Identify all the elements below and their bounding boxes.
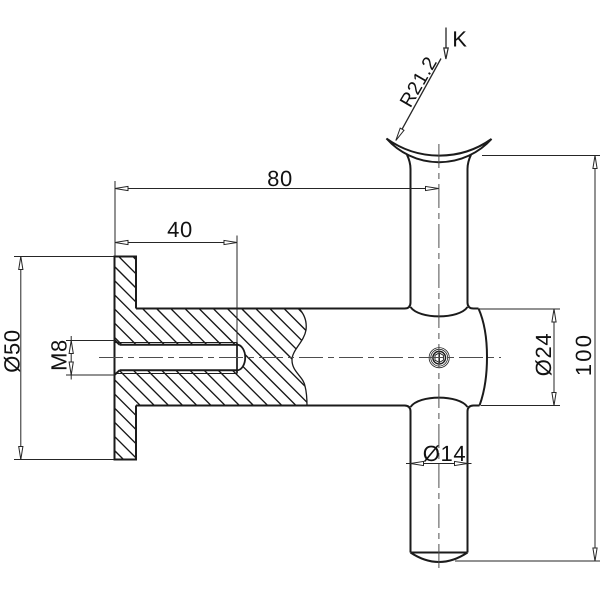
dim D24 extension bottom bbox=[481, 405, 560, 407]
horizontal centerline bbox=[99, 357, 501, 359]
dim 100 arrow top bbox=[593, 156, 597, 169]
dim D50 line bbox=[20, 257, 22, 460]
K arrow head bbox=[444, 48, 448, 59]
dim 100 arrow bottom bbox=[593, 548, 597, 561]
svg-text:40: 40 bbox=[167, 217, 193, 242]
M8 chamfer top bbox=[115, 340, 120, 345]
dim 40 extension right bbox=[236, 236, 238, 344]
dim D50 extension top bbox=[14, 256, 114, 258]
dim D50 extension bottom bbox=[14, 459, 114, 461]
svg-text:Ø24: Ø24 bbox=[531, 333, 556, 376]
set screw slot line bbox=[438, 353, 440, 363]
svg-text:100: 100 bbox=[571, 333, 596, 376]
M8 thread major line bottom bbox=[115, 373, 238, 375]
vertical centerline bbox=[438, 144, 440, 571]
upper tube right edge bbox=[468, 155, 472, 303]
set screw hex socket bbox=[435, 353, 443, 363]
lower post left edge bbox=[410, 412, 412, 553]
dim D24 arrow bottom bbox=[552, 393, 556, 406]
dim 40 arrow left bbox=[115, 240, 128, 244]
svg-text:M8: M8 bbox=[47, 339, 72, 371]
dim D24 line bbox=[553, 309, 555, 406]
K arrow line bbox=[445, 28, 447, 50]
dim D24 extension top bbox=[479, 308, 561, 310]
dim 100 extension top bbox=[482, 155, 600, 157]
break line bbox=[292, 309, 307, 406]
M8 hole bottom line bbox=[120, 369, 238, 371]
intersection curve bottom bbox=[411, 398, 468, 407]
M8 thread major line top bbox=[115, 342, 238, 344]
dim M8 extension top bbox=[66, 340, 115, 342]
lower post right edge bbox=[467, 412, 469, 553]
M8 chamfer bottom bbox=[115, 370, 120, 375]
lower post end line bbox=[411, 552, 468, 554]
dim 100 extension bottom bbox=[455, 560, 600, 562]
body bottom edge bbox=[136, 406, 411, 412]
dim M8 arrow top bbox=[69, 341, 73, 354]
body right top corner bbox=[468, 303, 479, 309]
dim 80 extension left bbox=[114, 181, 116, 256]
body right bottom corner bbox=[468, 406, 480, 412]
dim D14 arrow left bbox=[411, 461, 424, 465]
body top edge bbox=[136, 303, 411, 309]
dim D24 arrow top bbox=[552, 309, 556, 322]
thread end line bbox=[236, 343, 238, 374]
svg-text:Ø14: Ø14 bbox=[423, 441, 466, 466]
lower post dome bbox=[411, 553, 468, 563]
saddle crescent bbox=[387, 139, 492, 163]
svg-text:K: K bbox=[452, 27, 467, 52]
dim 80 arrow right bbox=[426, 186, 439, 190]
body right end cap arc bbox=[479, 309, 488, 406]
dim 80 arrow left bbox=[115, 186, 128, 190]
set screw minor circle bbox=[433, 351, 446, 364]
dim 40 arrow right bbox=[224, 240, 237, 244]
set screw thread circle bbox=[431, 349, 448, 366]
intersection curve top bbox=[411, 307, 468, 316]
R21.2 arrow head bbox=[396, 128, 404, 141]
dim 80 line bbox=[115, 188, 439, 190]
set screw outer circle bbox=[429, 348, 449, 368]
dim 40 line bbox=[115, 242, 237, 244]
dim M8 line bbox=[70, 336, 72, 380]
M8 hole top line bbox=[120, 344, 238, 346]
dim 100 line bbox=[594, 156, 596, 562]
upper tube left edge bbox=[407, 155, 411, 303]
dim D14 line bbox=[406, 463, 472, 465]
dim M8 extension bottom bbox=[66, 374, 115, 376]
R21.2 leader line bbox=[398, 59, 442, 138]
drill cone bbox=[237, 345, 245, 371]
section hatching flange and body bbox=[0, 250, 540, 480]
svg-text:Ø50: Ø50 bbox=[0, 329, 25, 372]
dim D50 arrow top bbox=[19, 257, 23, 270]
dim D14 arrow right bbox=[455, 461, 468, 465]
dim D50 arrow bottom bbox=[19, 447, 23, 460]
dim M8 arrow bottom bbox=[69, 362, 73, 375]
svg-text:80: 80 bbox=[267, 166, 293, 191]
flange outline bbox=[115, 257, 137, 460]
